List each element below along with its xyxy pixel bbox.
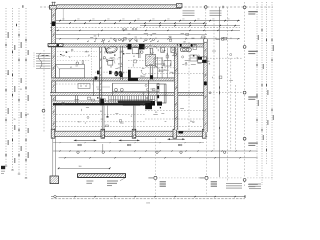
svg-text:100: 100 — [137, 18, 140, 20]
svg-text:360: 360 — [79, 166, 82, 168]
svg-text:04: 04 — [76, 66, 78, 68]
svg-text:100: 100 — [92, 18, 95, 20]
svg-text:90: 90 — [185, 38, 187, 40]
svg-text:xx xxx: xx xxx — [158, 71, 163, 73]
svg-text:35: 35 — [20, 89, 22, 91]
svg-text:06: 06 — [110, 67, 112, 69]
svg-text:100: 100 — [197, 18, 200, 20]
svg-text:100: 100 — [152, 18, 155, 20]
svg-text:35: 35 — [14, 119, 16, 121]
svg-text:100: 100 — [122, 18, 125, 20]
svg-text:90: 90 — [110, 38, 112, 40]
svg-text:1250: 1250 — [146, 203, 150, 205]
svg-text:100: 100 — [182, 18, 185, 20]
svg-text:35: 35 — [7, 74, 9, 76]
svg-text:90: 90 — [230, 38, 232, 40]
svg-text:100: 100 — [212, 18, 215, 20]
svg-text:01: 01 — [88, 55, 90, 57]
svg-text:90: 90 — [200, 38, 202, 40]
svg-text:05: 05 — [133, 56, 135, 58]
svg-text:90: 90 — [155, 38, 157, 40]
svg-text:90: 90 — [140, 38, 142, 40]
svg-text:100: 100 — [77, 18, 80, 20]
svg-text:90: 90 — [95, 38, 97, 40]
svg-text:100: 100 — [107, 18, 110, 20]
svg-text:02: 02 — [70, 67, 72, 69]
svg-text:12: 12 — [97, 89, 99, 91]
svg-text:35: 35 — [27, 114, 29, 116]
svg-text:100: 100 — [167, 18, 170, 20]
